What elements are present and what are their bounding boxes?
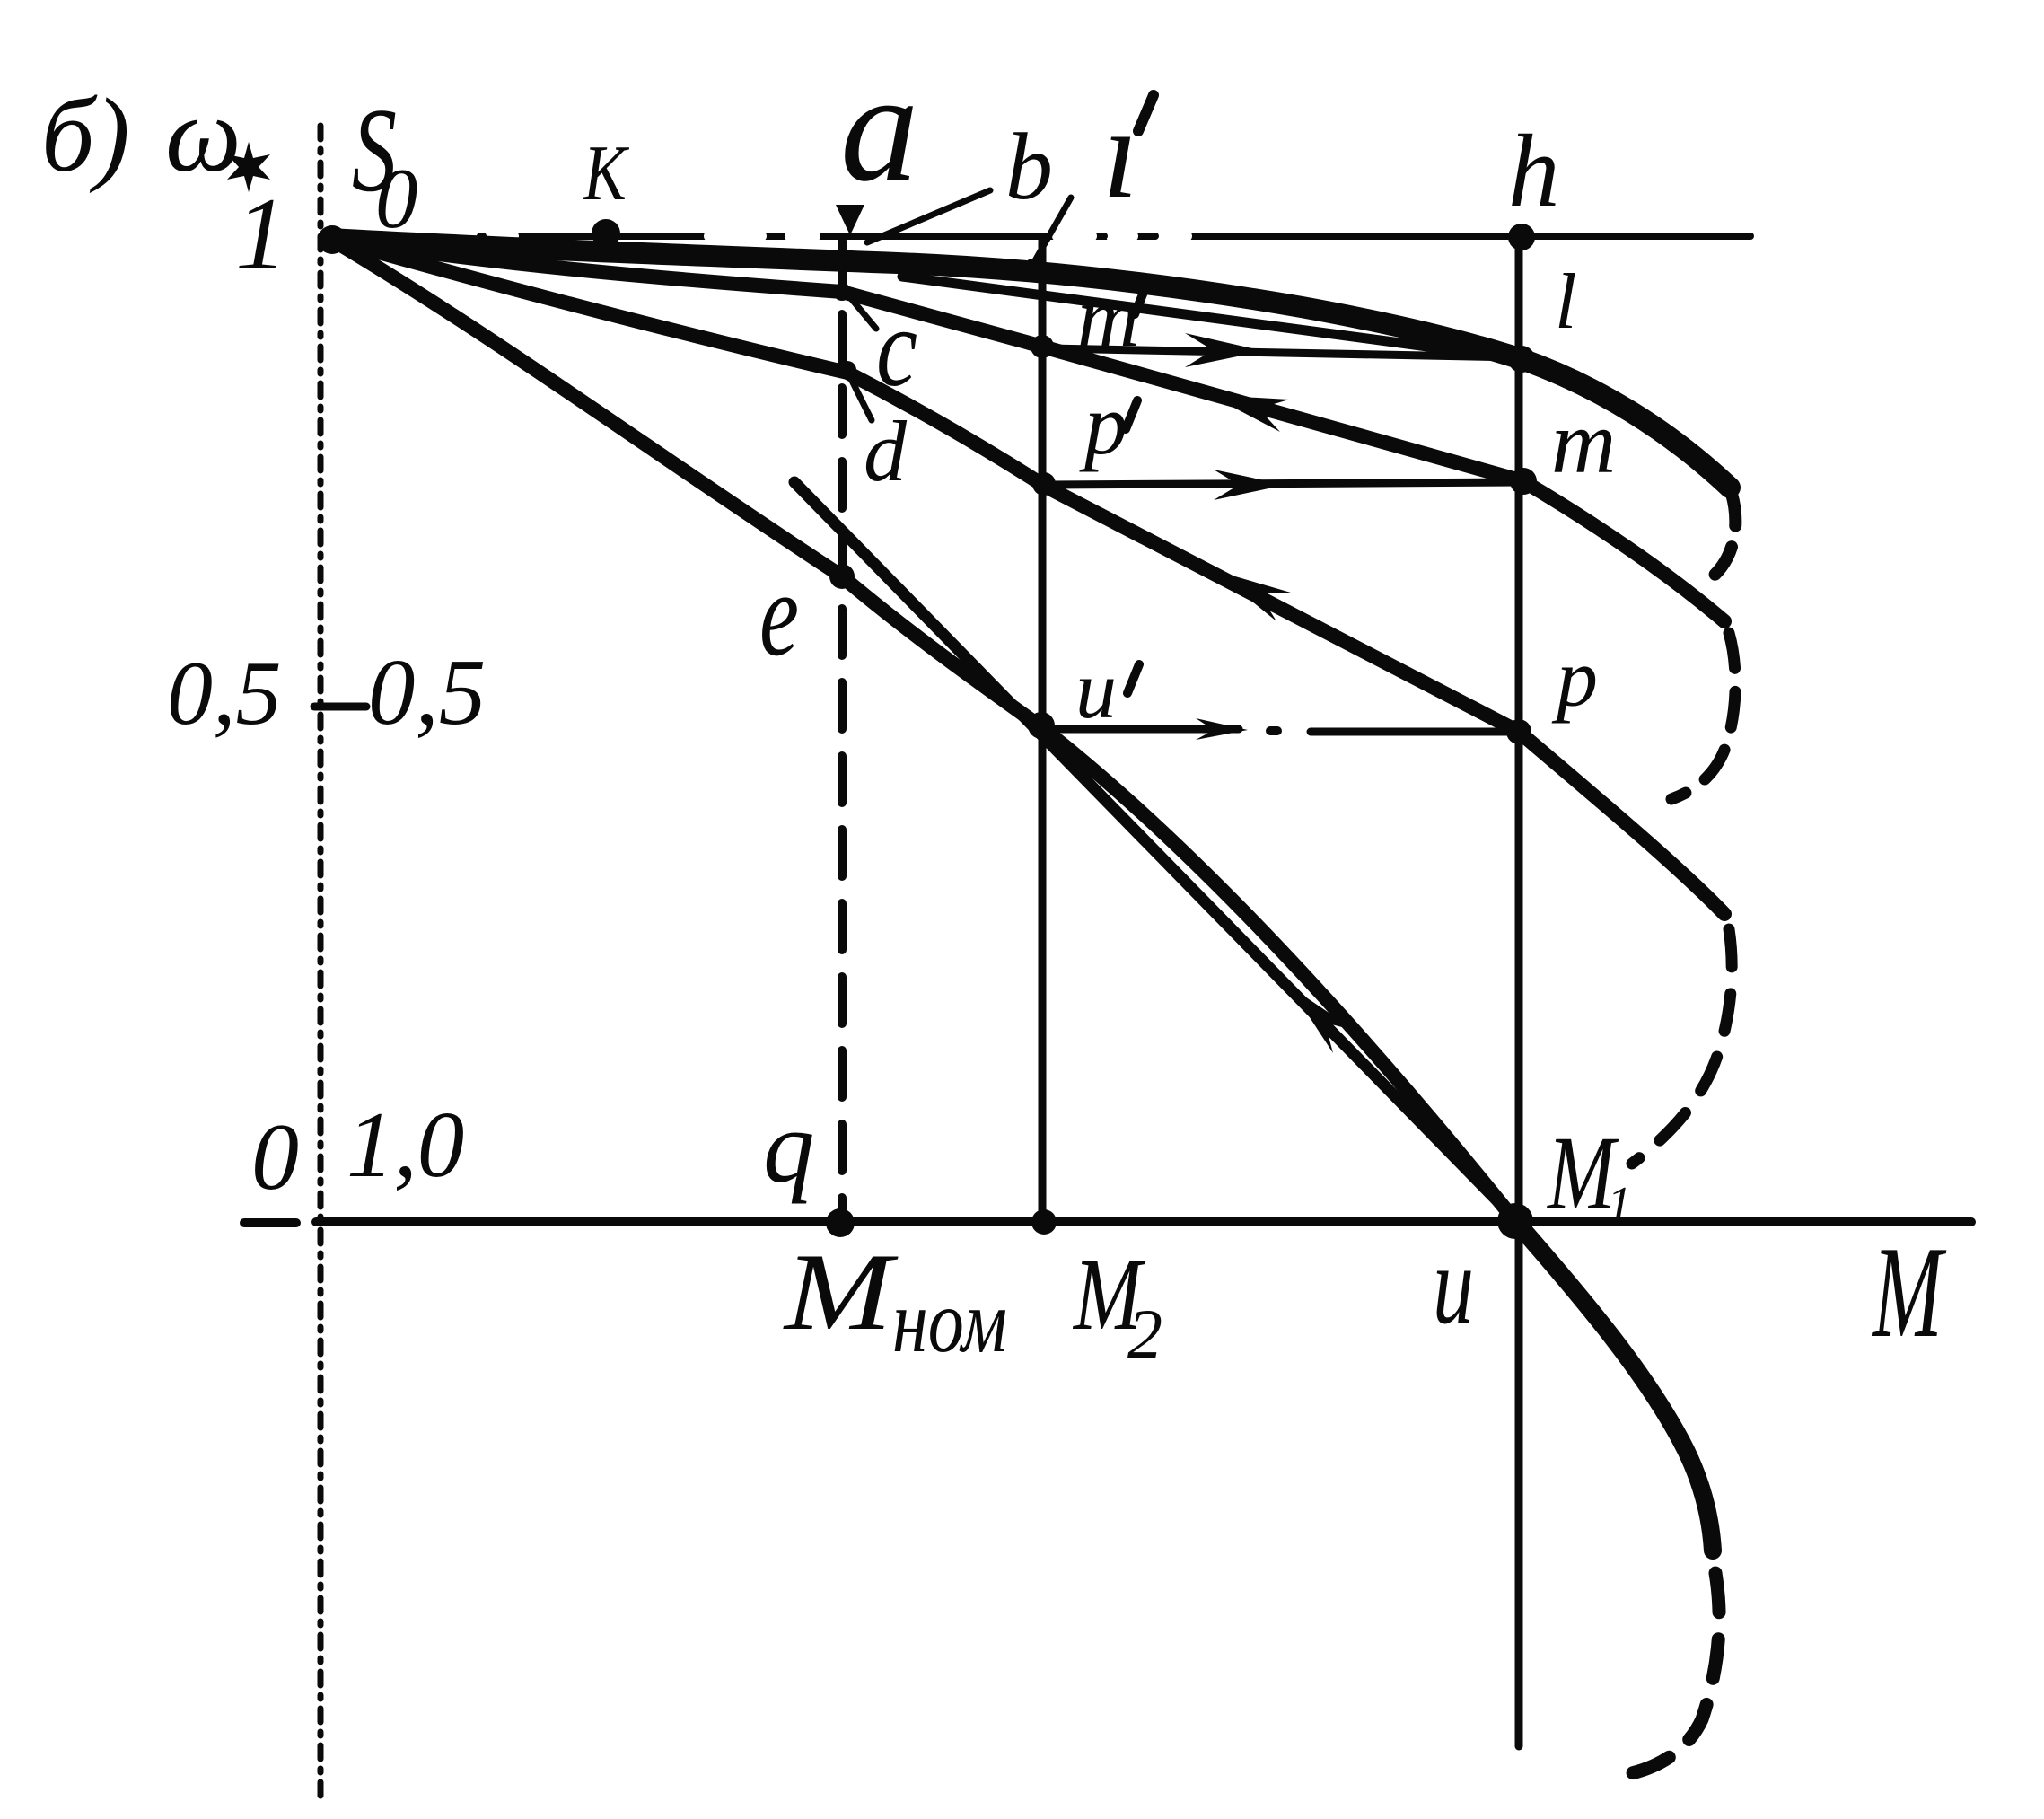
- point K: [592, 219, 620, 248]
- point M2 on axis: [1031, 1209, 1057, 1235]
- point m': [1031, 335, 1054, 358]
- leader for i': [1034, 198, 1071, 262]
- svg-text:a: a: [840, 40, 919, 214]
- svg-text:e: e: [759, 548, 799, 681]
- K-l trajectory stroke: [902, 277, 1522, 359]
- point q: [826, 1208, 855, 1237]
- characteristic 1 dashed hook: [1618, 1573, 1719, 1776]
- Mnom dashed vertical: [838, 241, 847, 1217]
- svg-text:1: 1: [235, 177, 287, 291]
- svg-text:M: M: [783, 1230, 899, 1353]
- svg-text:ном: ном: [892, 1271, 1007, 1371]
- origin point: [318, 225, 347, 254]
- straight trajectory stroke along char1: [794, 482, 1514, 1218]
- characteristic 3 (through c, m', m): [330, 239, 1724, 621]
- point h: [1508, 224, 1535, 250]
- point p': [1032, 472, 1056, 496]
- natural characteristic (thick curve through K, i', l): [330, 239, 1730, 488]
- svg-text:c: c: [876, 286, 917, 410]
- point i': [1025, 259, 1040, 273]
- point l: [1508, 346, 1535, 373]
- leader for d: [851, 379, 872, 420]
- svg-text:0,5: 0,5: [167, 643, 282, 744]
- point e: [829, 564, 855, 589]
- leader for b: [867, 190, 990, 242]
- point d: [838, 361, 856, 379]
- characteristic 2 dashed hook: [1632, 929, 1732, 1164]
- svg-text:u: u: [1433, 1224, 1474, 1348]
- u prime tick: [1127, 664, 1139, 693]
- point u': [1028, 712, 1055, 739]
- characteristic 2 (through d, p', p): [330, 239, 1724, 914]
- top line dash-dot gaps: [438, 231, 1187, 242]
- leader for c: [849, 296, 876, 329]
- arrow up-left on characteristic 3: [1210, 395, 1289, 432]
- p'-m horizontal transition: [1048, 482, 1521, 485]
- p prime tick: [1126, 400, 1137, 429]
- M2 vertical: [1039, 241, 1047, 1219]
- characteristic 1 (through e, u', M1): [330, 239, 1515, 1221]
- svg-text:p: p: [1551, 632, 1598, 724]
- svg-text:0: 0: [375, 151, 418, 246]
- svg-text:0,5: 0,5: [368, 639, 486, 744]
- svg-text:m: m: [1077, 268, 1139, 365]
- m'-l horizontal transition: [1048, 348, 1519, 357]
- point a marker triangle: [836, 205, 864, 235]
- omega star subscript: [227, 142, 270, 192]
- svg-text:b: b: [1005, 114, 1053, 219]
- svg-text:2: 2: [1127, 1295, 1162, 1373]
- svg-text:h: h: [1508, 114, 1560, 228]
- svg-text:б): б): [41, 76, 130, 194]
- svg-text:u: u: [1075, 644, 1117, 735]
- svg-text:1: 1: [1607, 1177, 1632, 1233]
- arrow up-left on characteristic 2: [1214, 570, 1291, 621]
- m prime tick: [1135, 286, 1146, 314]
- point m: [1510, 468, 1537, 495]
- svg-text:p: p: [1079, 376, 1127, 472]
- point M1 on axis: [1497, 1203, 1533, 1239]
- u'-p horizontal transition: [1047, 729, 1519, 732]
- svg-text:ω: ω: [165, 75, 241, 194]
- point c: [833, 283, 851, 301]
- 0.5 tick: [314, 703, 366, 711]
- omega axis (vertical dash-dot): [318, 126, 324, 1803]
- svg-text:K: K: [582, 130, 629, 217]
- svg-text:1,0: 1,0: [347, 1092, 464, 1197]
- arrow right on p'-m line: [1214, 470, 1285, 500]
- svg-text:0: 0: [251, 1104, 299, 1209]
- top line at omega*=1: [325, 233, 1750, 240]
- arrow right on u'-p line: [1196, 718, 1248, 740]
- svg-text:d: d: [864, 403, 908, 499]
- svg-text:q: q: [763, 1090, 815, 1204]
- characteristic 1 continuation below axis: [1515, 1221, 1713, 1551]
- natural characteristic dashed hook: [1711, 494, 1735, 578]
- point p: [1506, 719, 1531, 744]
- characteristic 3 dashed hook: [1671, 633, 1735, 799]
- M1 vertical: [1515, 239, 1523, 1746]
- arrow up-left on trajectory stroke: [1289, 986, 1355, 1053]
- svg-text:M: M: [1872, 1219, 1947, 1365]
- prime ticks: [1126, 95, 1154, 693]
- arrow right on m'-l line: [1185, 333, 1264, 367]
- svg-text:l: l: [1555, 259, 1576, 346]
- M axis (horizontal): [244, 1222, 1971, 1223]
- svg-text:ı: ı: [1102, 82, 1138, 225]
- svg-text:m: m: [1551, 392, 1616, 492]
- i prime tick: [1138, 95, 1154, 131]
